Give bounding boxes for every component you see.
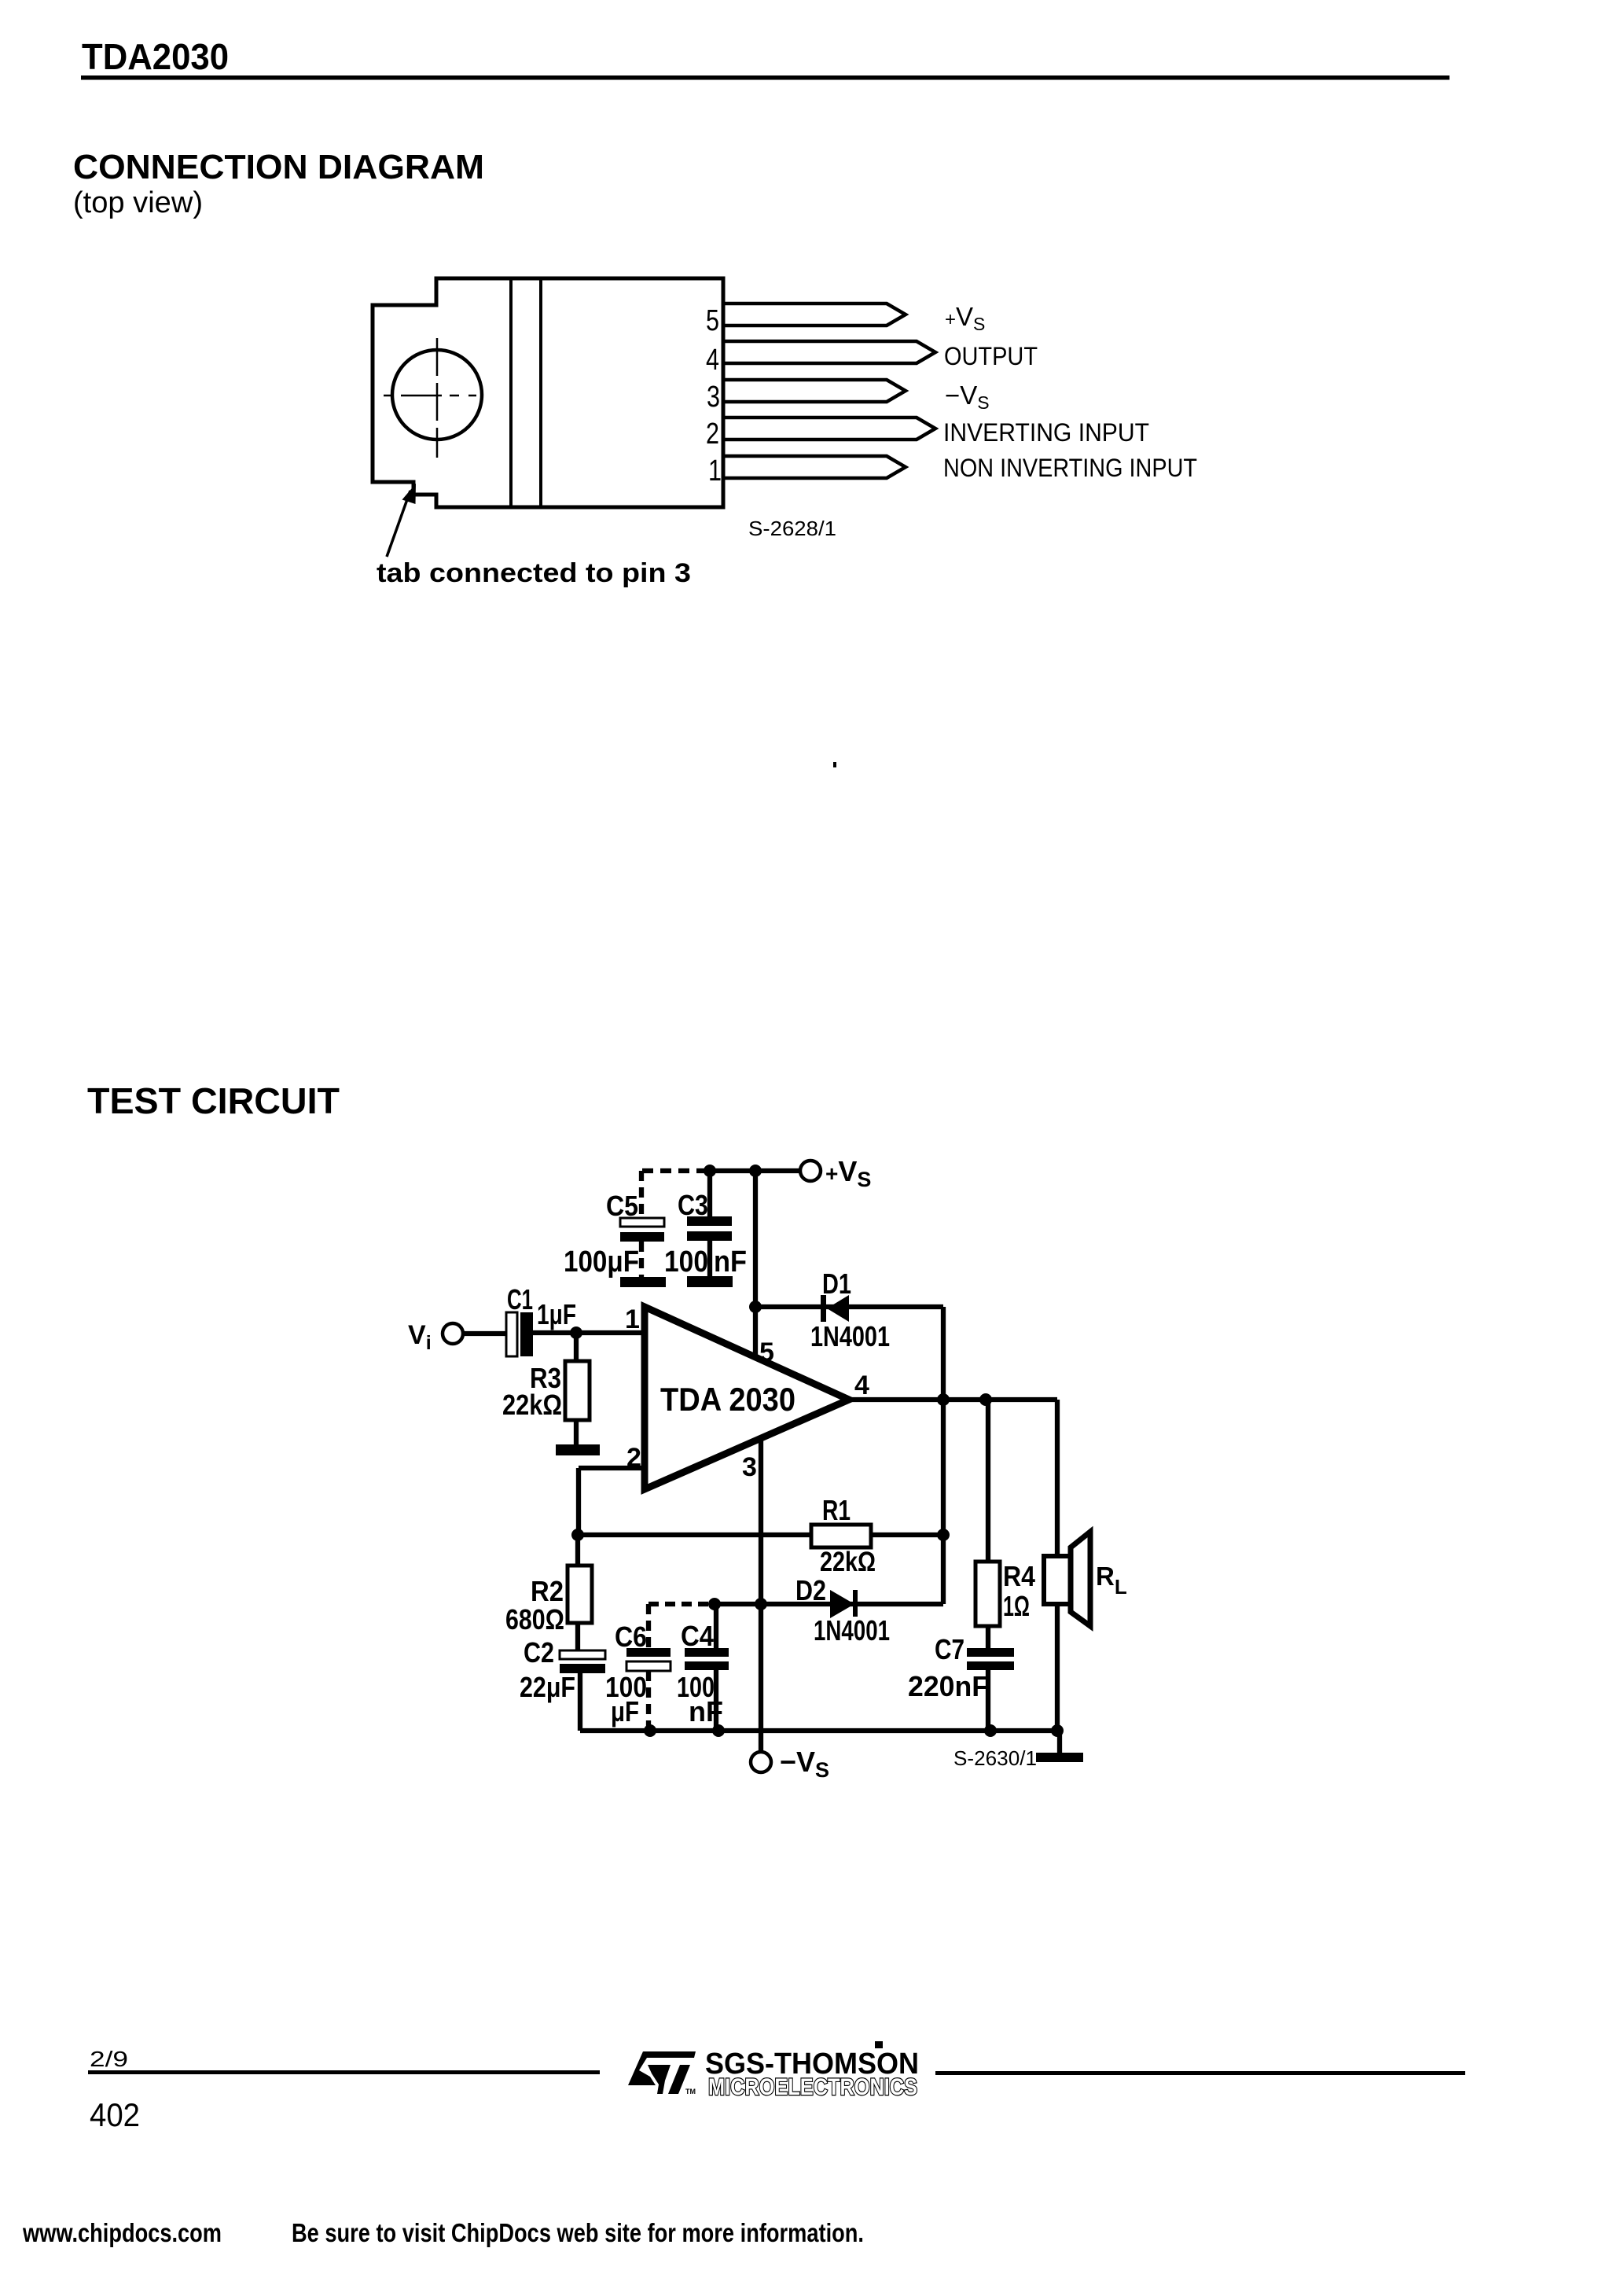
svg-text:TDA2030: TDA2030 bbox=[82, 36, 229, 77]
svg-text:4: 4 bbox=[706, 344, 719, 377]
svg-text:R1: R1 bbox=[822, 1494, 851, 1526]
svg-text:−VS: −VS bbox=[780, 1746, 829, 1782]
svg-text:4: 4 bbox=[854, 1371, 869, 1400]
svg-text:INVERTING INPUT: INVERTING INPUT bbox=[943, 418, 1149, 447]
svg-text:3: 3 bbox=[707, 381, 720, 414]
svg-text:−VS: −VS bbox=[945, 381, 990, 413]
svg-text:μF: μF bbox=[611, 1695, 639, 1728]
svg-text:nF: nF bbox=[689, 1695, 723, 1728]
svg-text:C3: C3 bbox=[678, 1189, 708, 1221]
svg-text:402: 402 bbox=[90, 2096, 140, 2133]
svg-text:1: 1 bbox=[708, 454, 722, 488]
svg-text:100μF: 100μF bbox=[564, 1246, 639, 1279]
svg-text:RL: RL bbox=[1096, 1562, 1127, 1599]
svg-text:TM: TM bbox=[685, 2088, 696, 2095]
svg-text:22kΩ: 22kΩ bbox=[820, 1547, 876, 1577]
svg-text:MICROELECTRONICS: MICROELECTRONICS bbox=[708, 2074, 917, 2100]
svg-text:CONNECTION DIAGRAM: CONNECTION DIAGRAM bbox=[73, 148, 484, 186]
svg-text:D1: D1 bbox=[822, 1268, 851, 1300]
svg-text:TDA 2030: TDA 2030 bbox=[660, 1381, 795, 1418]
svg-text:TEST CIRCUIT: TEST CIRCUIT bbox=[87, 1080, 340, 1121]
svg-text:nF: nF bbox=[714, 1246, 747, 1279]
svg-text:1N4001: 1N4001 bbox=[814, 1614, 890, 1647]
svg-text:220nF: 220nF bbox=[908, 1670, 989, 1702]
svg-text:C6: C6 bbox=[615, 1621, 647, 1653]
svg-text:C5: C5 bbox=[606, 1190, 638, 1222]
svg-text:tab connected to pin 3: tab connected to pin 3 bbox=[377, 558, 691, 588]
svg-text:S-2630/1: S-2630/1 bbox=[953, 1746, 1037, 1770]
svg-text:NON INVERTING INPUT: NON INVERTING INPUT bbox=[943, 454, 1197, 482]
svg-text:2: 2 bbox=[706, 418, 719, 451]
svg-text:S-2628/1: S-2628/1 bbox=[748, 517, 836, 540]
svg-text:C1: C1 bbox=[507, 1283, 533, 1315]
svg-text:1Ω: 1Ω bbox=[1003, 1590, 1030, 1622]
svg-text:C7: C7 bbox=[935, 1633, 964, 1665]
svg-text:+VS: +VS bbox=[825, 1155, 871, 1191]
svg-text:22μF: 22μF bbox=[520, 1671, 575, 1703]
svg-text:680Ω: 680Ω bbox=[505, 1603, 564, 1636]
svg-text:5: 5 bbox=[706, 304, 719, 337]
svg-text:5: 5 bbox=[759, 1337, 774, 1367]
svg-text:(top view): (top view) bbox=[73, 186, 203, 219]
svg-text:1N4001: 1N4001 bbox=[810, 1320, 890, 1352]
svg-text:Be sure to visit ChipDocs web: Be sure to visit ChipDocs web site for m… bbox=[292, 2218, 864, 2247]
svg-text:D2: D2 bbox=[795, 1574, 826, 1606]
svg-text:www.chipdocs.com: www.chipdocs.com bbox=[22, 2218, 222, 2247]
svg-text:+VS: +VS bbox=[945, 302, 985, 334]
svg-text:22kΩ: 22kΩ bbox=[502, 1389, 562, 1421]
svg-text:OUTPUT: OUTPUT bbox=[944, 342, 1038, 370]
svg-text:100: 100 bbox=[664, 1246, 708, 1279]
svg-text:C4: C4 bbox=[681, 1620, 714, 1652]
svg-text:Vi: Vi bbox=[408, 1320, 432, 1354]
svg-text:1: 1 bbox=[625, 1304, 640, 1334]
svg-text:3: 3 bbox=[742, 1452, 757, 1482]
svg-text:2/9: 2/9 bbox=[90, 2047, 128, 2071]
svg-text:C2: C2 bbox=[524, 1636, 554, 1669]
svg-text:R4: R4 bbox=[1003, 1560, 1035, 1592]
svg-text:2: 2 bbox=[626, 1443, 641, 1473]
svg-text:1μF: 1μF bbox=[537, 1298, 576, 1330]
svg-text:R2: R2 bbox=[531, 1575, 564, 1607]
